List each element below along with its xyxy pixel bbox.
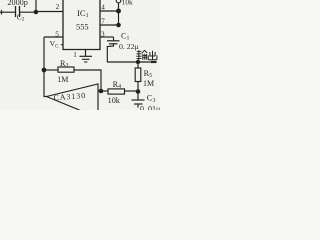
node G junction dot [136, 89, 141, 94]
wire node down to op-amp [44, 70, 47, 97]
IC1 555 box [63, 0, 100, 50]
node F junction dot [136, 60, 140, 64]
wire C1 to output line [107, 44, 113, 62]
wire node to C3 [137, 92, 139, 100]
capacitor C1 [113, 37, 115, 40]
wire R4 to node [124, 90, 138, 92]
op-amp input stub [98, 90, 108, 92]
wire input to C2 [0, 11, 15, 13]
resistor R5 [135, 68, 141, 82]
resistor R3 [58, 67, 74, 72]
node E junction dot [99, 89, 104, 94]
wire node to R3 [44, 69, 58, 71]
node C junction dot [116, 23, 121, 28]
wire vertical to top terminal [118, 3, 120, 26]
wire pin5 down to node [43, 37, 45, 70]
ground [80, 55, 93, 57]
pin 5 inner tick [61, 44, 64, 46]
capacitor C3 [132, 99, 145, 101]
node B junction dot [116, 9, 121, 14]
label 输出 (output) [136, 50, 157, 60]
output line [107, 61, 150, 63]
terminal circle [116, 0, 121, 3]
node D junction dot [42, 68, 47, 73]
wire R3 to corner [74, 70, 101, 91]
wire pin 3 [100, 36, 114, 38]
wire pin 5 [44, 36, 63, 38]
capacitor C2 [15, 6, 17, 17]
resistor R4 [108, 89, 125, 94]
op-amp CA3130 triangle [47, 84, 99, 111]
pin 1 ground stub [85, 50, 87, 57]
wire C2 to node [20, 11, 37, 13]
wire pin 7 [100, 24, 119, 26]
wire R5 to node [137, 82, 139, 92]
output arrow [151, 61, 157, 63]
wire pin 4 [100, 10, 119, 12]
wire output node down to R5 [137, 62, 139, 68]
wire from top into node [35, 0, 37, 12]
node A junction dot [34, 10, 39, 15]
input terminal tick [1, 10, 3, 15]
wire node to pin 2 [36, 11, 63, 13]
